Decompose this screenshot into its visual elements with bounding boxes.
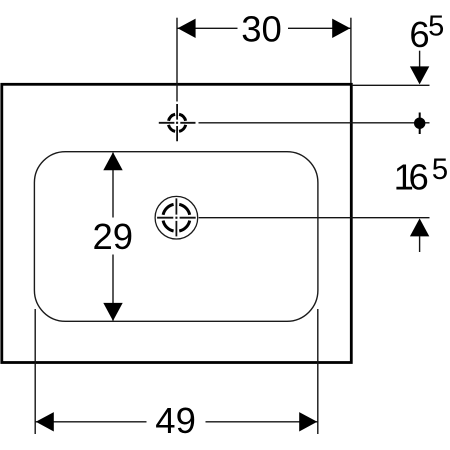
svg-text:49: 49 [155, 400, 196, 441]
dimension line 16^5 tail [419, 236, 421, 252]
faucet hole vertical centerline [176, 104, 178, 141]
arrowhead 29 down [103, 303, 122, 321]
reference line faucet level right [199, 122, 430, 124]
washbasin outer outline [2, 84, 352, 362]
svg-text:5: 5 [428, 11, 444, 43]
arrowhead 6^5 down [410, 66, 429, 84]
dimension line 49 left segment [35, 421, 146, 423]
dimension line 29 upper segment [112, 153, 114, 218]
extension line bowl right for dim 49 [317, 309, 319, 434]
arrowhead 30 left [178, 19, 196, 38]
reference line top edge right [352, 84, 430, 86]
extension line bowl left for dim 49 [34, 309, 36, 434]
svg-text:30: 30 [241, 9, 282, 50]
drain horizontal centerline [157, 217, 196, 219]
faucet hole dashed circle [169, 114, 186, 131]
drain outer circle [155, 196, 198, 239]
dimension line 30 right segment [288, 27, 351, 29]
arrowhead 16^5 up [410, 218, 429, 236]
drain vertical centerline [175, 198, 177, 236]
svg-text:29: 29 [92, 216, 133, 257]
dimension line 6^5 vertical [419, 51, 421, 67]
dimension line 49 right segment [206, 421, 318, 423]
dot marker at faucet level [414, 118, 425, 129]
arrowhead 30 right [332, 19, 350, 38]
dimension line 29 lower segment [112, 255, 114, 321]
arrowhead 49 right [299, 412, 317, 431]
svg-text:6: 6 [408, 157, 428, 198]
drain dashed circle [163, 204, 190, 231]
dimension line 30 left segment [177, 27, 238, 29]
reference line drain level right [199, 217, 430, 219]
faucet hole horizontal centerline [159, 122, 196, 124]
dot marker vertical tick [419, 113, 421, 135]
extension line above faucet for dim 30 [176, 18, 178, 102]
extension line right edge for dim 30 [350, 18, 352, 83]
svg-text:6: 6 [409, 14, 429, 55]
svg-text:5: 5 [432, 153, 448, 186]
arrowhead 29 up [103, 152, 122, 170]
basin bowl outline [34, 152, 318, 322]
arrowhead 49 left [36, 412, 54, 431]
